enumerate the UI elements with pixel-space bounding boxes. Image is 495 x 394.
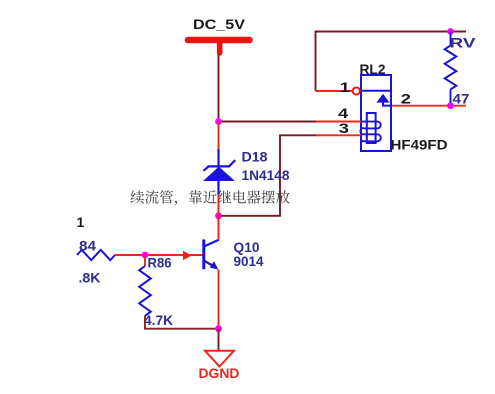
junction dot node C — [215, 325, 222, 332]
svg-text:4: 4 — [338, 105, 348, 121]
svg-text:HF49FD: HF49FD — [391, 137, 448, 153]
diode D18 (zener) — [203, 149, 235, 194]
wire top loop from pin 1 up and right — [316, 32, 467, 92]
resistor R84 — [77, 250, 115, 260]
svg-text:1: 1 — [340, 79, 350, 95]
svg-text:RV: RV — [450, 35, 477, 51]
svg-text:R86: R86 — [148, 255, 172, 271]
resistor R86 — [139, 255, 151, 316]
wire pin 3 loop — [316, 134, 361, 136]
svg-text:1: 1 — [77, 214, 85, 230]
wire pin 4 — [219, 121, 317, 123]
wire R86 bottom to node C — [145, 316, 219, 329]
relay switch arrow — [376, 94, 389, 103]
transistor Q10 — [204, 239, 219, 269]
junction dot top right — [447, 28, 454, 35]
note text (Chinese) — [130, 190, 144, 203]
junction dot R86 top — [142, 252, 149, 259]
relay coil — [367, 113, 376, 143]
svg-text:D18: D18 — [242, 149, 268, 165]
wire relay pin 2 to RV — [392, 105, 467, 107]
svg-text:DC_5V: DC_5V — [193, 16, 246, 32]
wire R84 to base — [115, 254, 203, 256]
svg-text:84: 84 — [79, 238, 96, 254]
wire diode to collector — [218, 194, 220, 240]
wire pin 1 — [316, 90, 353, 92]
relay RL2 — [360, 75, 391, 151]
junction node A dot — [215, 118, 222, 125]
varistor RV — [445, 32, 457, 106]
svg-text:9014: 9014 — [234, 253, 264, 269]
svg-text:4.7K: 4.7K — [144, 312, 173, 328]
wire emitter down — [218, 270, 220, 329]
wire DC_5V stem down to node A — [218, 54, 220, 122]
svg-text:47: 47 — [453, 91, 470, 107]
base arrow — [183, 251, 192, 261]
ground DGND — [199, 329, 240, 381]
junction dot node B — [215, 212, 222, 219]
wire node A to diode — [218, 122, 220, 150]
pin 1 circle — [353, 87, 360, 94]
wire collector up — [218, 194, 220, 240]
svg-text:2: 2 — [401, 90, 411, 106]
svg-text:1N4148: 1N4148 — [242, 167, 290, 183]
svg-text:RL2: RL2 — [360, 61, 386, 77]
svg-text:.8K: .8K — [79, 270, 101, 286]
power symbol DC_5V — [188, 16, 250, 53]
svg-text:DGND: DGND — [199, 365, 240, 381]
junction dot pin2/RV — [447, 102, 454, 109]
